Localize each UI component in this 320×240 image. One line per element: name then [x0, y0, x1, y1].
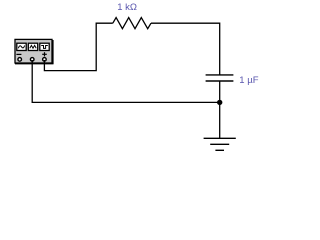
plus mark	[42, 52, 47, 56]
function generator XFG1	[15, 39, 54, 64]
minus mark	[16, 53, 21, 55]
junction node	[217, 100, 222, 105]
svg-text:1 µF: 1 µF	[239, 75, 258, 86]
square button	[40, 43, 49, 50]
svg-text:1 kΩ: 1 kΩ	[117, 2, 137, 13]
terminal minus	[18, 58, 22, 62]
wire capacitor to ground	[219, 81, 221, 138]
ground	[204, 138, 236, 150]
terminal common	[30, 58, 34, 62]
capacitor C1	[206, 75, 234, 81]
wire plus terminal to resistor	[44, 23, 112, 70]
resistor R1	[113, 18, 151, 29]
sine button	[17, 43, 26, 50]
triangle button	[28, 43, 37, 50]
wire common terminal to junction	[32, 60, 220, 102]
wire resistor to capacitor	[151, 23, 220, 75]
terminal plus	[43, 58, 47, 62]
